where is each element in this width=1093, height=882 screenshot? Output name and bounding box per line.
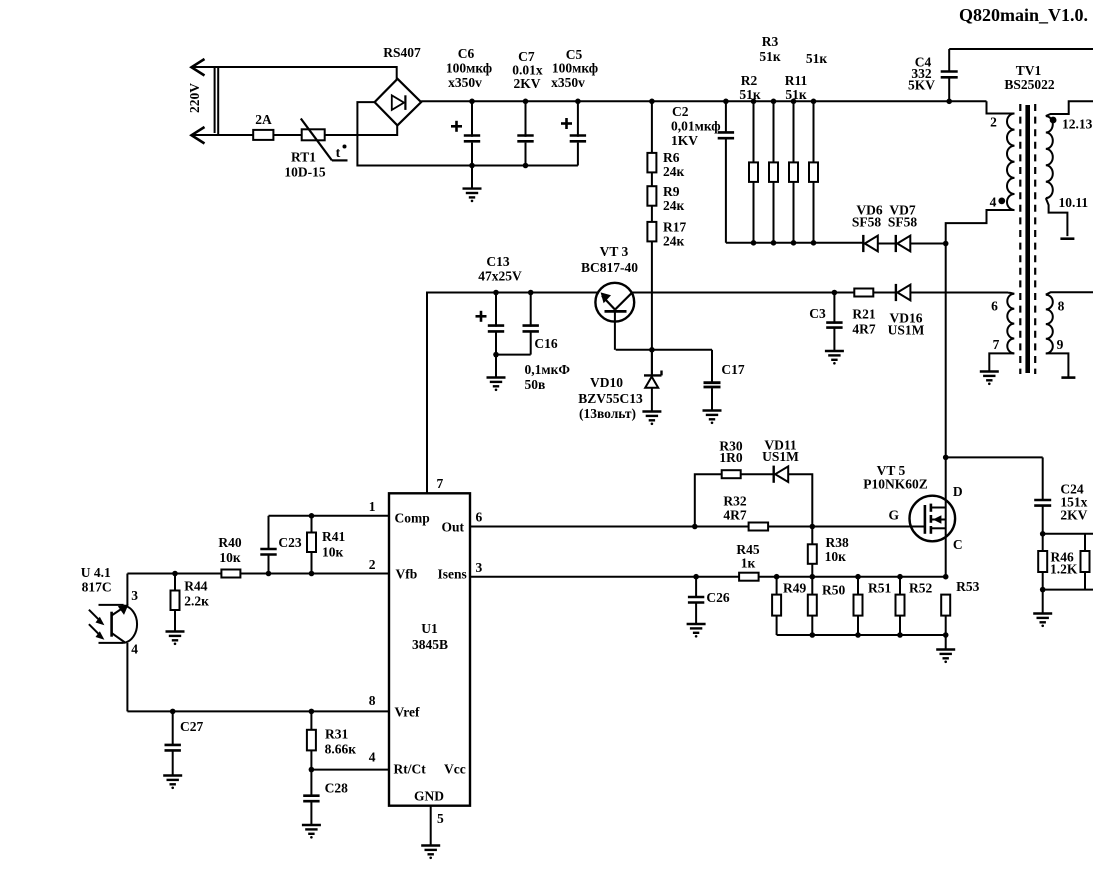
ground below C6 xyxy=(463,166,482,203)
optocoupler U4.1 817C xyxy=(99,574,138,712)
svg-text:SF58: SF58 xyxy=(888,215,918,230)
svg-text:RS407: RS407 xyxy=(383,45,421,60)
svg-text:C13: C13 xyxy=(486,254,509,269)
opto pin 4 label xyxy=(131,642,138,657)
label VT5 P10NK60Z xyxy=(863,463,928,492)
transformer winding pins 8-9 xyxy=(1046,292,1093,377)
ground pin 7 xyxy=(980,372,999,386)
pin 6 wire xyxy=(470,526,925,528)
label VT3 BC817-40 xyxy=(581,244,638,275)
svg-text:Comp: Comp xyxy=(395,511,430,526)
label R32 4R7 xyxy=(723,494,746,523)
svg-text:P10NK60Z: P10NK60Z xyxy=(863,477,928,492)
diode VD6 xyxy=(863,235,878,252)
ground below VD10 xyxy=(642,412,661,426)
svg-text:1.2K: 1.2K xyxy=(1050,562,1078,577)
transformer primary winding pins 2-4 xyxy=(946,101,1015,243)
svg-text:8: 8 xyxy=(369,693,376,708)
svg-text:10.11: 10.11 xyxy=(1059,195,1089,210)
svg-text:6: 6 xyxy=(476,510,483,525)
svg-text:4R7: 4R7 xyxy=(723,508,746,523)
resistor R11 xyxy=(789,99,798,246)
svg-text:R11: R11 xyxy=(785,73,808,88)
svg-text:10к: 10к xyxy=(825,549,847,564)
pin 9 label xyxy=(1057,337,1064,352)
svg-text:1KV: 1KV xyxy=(671,133,698,148)
svg-text:2A: 2A xyxy=(255,112,272,127)
svg-text:C2: C2 xyxy=(672,104,689,119)
transformer secondary winding 12.13 xyxy=(1046,101,1093,236)
svg-text:C23: C23 xyxy=(278,535,301,550)
label R31 8.66k xyxy=(325,727,357,757)
svg-text:51к: 51к xyxy=(785,87,807,102)
ground below C17 xyxy=(703,411,722,425)
pin 7 label xyxy=(437,476,444,491)
svg-text:C17: C17 xyxy=(721,362,744,377)
transistor VT3 xyxy=(595,283,634,350)
title text xyxy=(959,5,1088,25)
svg-text:Isens: Isens xyxy=(438,567,467,582)
pin 3 label xyxy=(476,560,483,575)
svg-text:US1M: US1M xyxy=(762,449,799,464)
pin name Vref xyxy=(395,705,420,720)
label R45 1k xyxy=(736,542,759,571)
resistor R46 xyxy=(1038,534,1047,590)
pin 4 wire xyxy=(309,767,389,773)
label C5 100mkf x350v xyxy=(551,47,598,90)
svg-text:2: 2 xyxy=(369,557,376,572)
ground below source rail xyxy=(936,635,955,663)
pin name Comp xyxy=(395,511,430,526)
capacitor C23 xyxy=(260,516,276,574)
svg-text:7: 7 xyxy=(437,476,444,491)
pin 5 wire xyxy=(430,806,432,846)
svg-text:R38: R38 xyxy=(826,535,849,550)
pin 4 label xyxy=(990,195,997,210)
svg-text:x350v: x350v xyxy=(448,75,482,90)
capacitor C17 xyxy=(704,350,721,411)
pin name GND xyxy=(414,789,444,804)
svg-text:R2: R2 xyxy=(741,73,758,88)
wire R46 bottom rail xyxy=(1040,587,1093,593)
wire AC bottom xyxy=(192,125,398,137)
label U1 3845B xyxy=(412,621,448,652)
wire R46 top rail xyxy=(1043,533,1093,535)
transformer core xyxy=(1020,104,1035,374)
resistor R50 xyxy=(808,577,817,635)
svg-text:0,1мкФ: 0,1мкФ xyxy=(525,362,571,377)
label C27 xyxy=(180,719,203,734)
svg-text:10D-15: 10D-15 xyxy=(284,165,325,180)
label D xyxy=(953,484,963,499)
svg-text:R6: R6 xyxy=(663,150,680,165)
opto pin 3 label xyxy=(131,588,138,603)
svg-text:BC817-40: BC817-40 xyxy=(581,260,638,275)
pin 2 wire xyxy=(127,571,389,577)
capacitor C28 xyxy=(303,770,319,825)
resistor R44 xyxy=(171,574,180,632)
svg-text:C3: C3 xyxy=(809,306,826,321)
wire main HV rail xyxy=(421,100,986,102)
resistor R41 xyxy=(307,516,316,574)
label R6 24k xyxy=(663,150,685,179)
svg-text:TV1: TV1 xyxy=(1016,63,1042,78)
svg-text:R52: R52 xyxy=(909,581,932,596)
label 2A xyxy=(255,112,272,127)
polarity dot 12.13 xyxy=(1050,117,1057,124)
label R21 4R7 xyxy=(852,307,875,337)
svg-text:6: 6 xyxy=(991,299,998,314)
label VD16 US1M xyxy=(888,311,925,338)
wire Vcc to pin 7 xyxy=(426,292,428,494)
svg-text:1к: 1к xyxy=(741,556,756,571)
thermistor RT1 xyxy=(301,119,348,161)
pin 6 label xyxy=(476,510,483,525)
svg-text:50в: 50в xyxy=(525,377,546,392)
pin 2 label xyxy=(369,557,376,572)
resistor R49 xyxy=(772,574,781,635)
wire startup chain vertical xyxy=(649,99,655,376)
svg-text:51к: 51к xyxy=(759,49,781,64)
ground below C27 xyxy=(163,776,182,790)
svg-text:3: 3 xyxy=(131,588,138,603)
resistor R3 xyxy=(769,99,778,246)
pin 8 label xyxy=(369,693,376,708)
ground below C13 xyxy=(487,378,506,392)
svg-text:R32: R32 xyxy=(723,494,746,509)
bridge rectifier RS407 xyxy=(375,79,422,126)
pin 8 wire xyxy=(127,709,389,715)
svg-text:2: 2 xyxy=(990,115,997,130)
pin name Vfb xyxy=(396,567,418,582)
resistor R40 xyxy=(221,570,240,578)
op-amp U1 3845B box xyxy=(389,493,470,805)
svg-text:R50: R50 xyxy=(822,583,845,598)
label R17 24k xyxy=(663,220,686,249)
node AC input top arrow xyxy=(192,59,205,76)
label C6 100mkf x350v xyxy=(446,46,492,90)
wire gate branch up xyxy=(692,474,722,529)
svg-text:VD10: VD10 xyxy=(590,375,623,390)
label t deg xyxy=(336,145,347,162)
svg-text:R49: R49 xyxy=(783,581,806,596)
pin 2 label xyxy=(990,115,997,130)
label C2 0,01mkf 1KV xyxy=(671,104,721,148)
svg-text:Vref: Vref xyxy=(395,705,420,720)
label VD10 BZV55C13 13volt xyxy=(578,375,643,421)
svg-text:24к: 24к xyxy=(663,164,685,179)
svg-text:4: 4 xyxy=(990,195,997,210)
wire bottom rail under capacitors xyxy=(472,165,578,167)
label C3 xyxy=(809,306,826,321)
svg-text:BS25022: BS25022 xyxy=(1004,77,1055,92)
resistor R51 xyxy=(854,574,863,635)
opto light arrows xyxy=(89,610,105,640)
label VD6 SF58 xyxy=(852,203,883,230)
resistor R31 xyxy=(307,711,316,769)
svg-text:3845B: 3845B xyxy=(412,637,448,652)
svg-text:1: 1 xyxy=(369,499,376,514)
svg-text:R41: R41 xyxy=(322,529,345,544)
resistor 51k fourth xyxy=(809,99,818,246)
svg-text:5KV: 5KV xyxy=(908,78,935,93)
pin name Vcc xyxy=(444,762,466,777)
connector double line xyxy=(215,67,219,135)
svg-text:7: 7 xyxy=(993,337,1000,352)
ground below C26 xyxy=(687,624,706,638)
diode VD16 xyxy=(873,284,910,301)
svg-text:U 4.1: U 4.1 xyxy=(81,565,111,580)
label RT1 10D-15 xyxy=(284,150,325,180)
resistor R2 xyxy=(749,99,758,246)
label VD7 SF58 xyxy=(888,203,918,230)
svg-text:C: C xyxy=(953,537,963,552)
ground below C3 xyxy=(825,351,844,365)
svg-text:R51: R51 xyxy=(868,581,891,596)
svg-text:VT 3: VT 3 xyxy=(600,244,629,259)
capacitor C24 xyxy=(1034,457,1051,536)
label C4 332 5KV xyxy=(908,55,935,93)
capacitor C27 xyxy=(165,711,181,775)
wire VD11 to gate node xyxy=(788,474,815,529)
label 10.11 xyxy=(1059,195,1089,210)
pin name Isens xyxy=(438,567,467,582)
svg-text:G: G xyxy=(888,508,899,523)
label U4.1 817C xyxy=(81,565,112,595)
svg-text:51к: 51к xyxy=(806,51,828,66)
svg-text:x350v: x350v xyxy=(551,75,585,90)
label R50 xyxy=(822,583,845,598)
label R38 10k xyxy=(825,535,849,564)
pin 5 label xyxy=(437,811,444,826)
svg-text:BZV55C13: BZV55C13 xyxy=(578,391,643,406)
wire C4 top xyxy=(949,48,1093,50)
svg-text:R9: R9 xyxy=(663,184,680,199)
svg-text:C28: C28 xyxy=(325,781,348,796)
svg-text:2.2к: 2.2к xyxy=(184,594,209,609)
transformer winding pins 6-7 xyxy=(989,293,1014,372)
svg-text:817C: 817C xyxy=(82,580,112,595)
svg-text:12.13: 12.13 xyxy=(1062,117,1093,132)
diode VD11 xyxy=(741,466,789,483)
label 12.13 xyxy=(1062,117,1093,132)
label R46 1.2K xyxy=(1050,550,1078,577)
capacitor C4 xyxy=(941,49,958,104)
svg-text:R40: R40 xyxy=(218,535,241,550)
capacitor C2 xyxy=(718,99,734,243)
svg-text:R44: R44 xyxy=(184,579,207,594)
node AC input bottom arrow xyxy=(192,127,205,144)
capacitor C7 xyxy=(517,99,533,169)
label TV1 BS25022 xyxy=(1004,63,1055,92)
capacitor C26 xyxy=(688,574,704,624)
label R44 2.2k xyxy=(184,579,209,609)
svg-text:R3: R3 xyxy=(762,34,779,49)
label C xyxy=(953,537,963,552)
terminal stub 10.11 xyxy=(1060,237,1074,240)
label C16 0,1mkF 50v xyxy=(525,336,571,377)
pin name Out xyxy=(442,520,465,535)
label C17 xyxy=(721,362,744,377)
wire bridge negative to bottom rail xyxy=(357,102,472,165)
svg-text:4: 4 xyxy=(369,750,376,765)
wire source rail bottom xyxy=(777,632,949,638)
capacitor C6 xyxy=(451,99,480,169)
label R41 10k xyxy=(322,529,345,560)
svg-text:100мкф: 100мкф xyxy=(446,61,492,76)
label C24 151x 2KV xyxy=(1060,482,1087,523)
wire VD16 to winding pin 6 xyxy=(910,292,1008,294)
wire VT3 collector to aux supply xyxy=(631,292,834,294)
ground pin 5 xyxy=(421,846,440,860)
svg-text:Rt/Ct: Rt/Ct xyxy=(394,762,427,777)
zener VD10 xyxy=(644,350,662,412)
pin name Rt/Ct xyxy=(394,762,427,777)
svg-text:8.66к: 8.66к xyxy=(325,742,357,757)
resistor R30 xyxy=(722,470,741,478)
svg-text:4R7: 4R7 xyxy=(852,322,875,337)
svg-text:2KV: 2KV xyxy=(514,76,541,91)
svg-text:R21: R21 xyxy=(852,307,875,322)
wire VT3 base node xyxy=(616,349,712,351)
wire VD6 to VD7 xyxy=(878,243,896,245)
svg-text:R31: R31 xyxy=(325,727,348,742)
resistor R32 xyxy=(749,523,769,531)
label C26 xyxy=(706,590,729,605)
svg-text:R53: R53 xyxy=(956,579,979,594)
svg-text:SF58: SF58 xyxy=(852,215,882,230)
svg-text:10к: 10к xyxy=(219,550,241,565)
transistor VT5 MOSFET xyxy=(910,496,956,542)
diode VD7 xyxy=(896,235,911,252)
svg-text:3: 3 xyxy=(476,560,483,575)
resistor R46 pair right xyxy=(1081,534,1090,590)
svg-text:U1: U1 xyxy=(421,621,438,636)
net label 220V xyxy=(187,83,202,113)
wire VD7 to drain node xyxy=(910,241,948,247)
svg-text:Vcc: Vcc xyxy=(444,762,466,777)
svg-text:C6: C6 xyxy=(458,46,475,61)
label R49 xyxy=(783,581,806,596)
wire snubber bottom xyxy=(726,242,863,244)
label C23 xyxy=(278,535,301,550)
resistor R17 xyxy=(647,222,656,242)
wire drain to C24 xyxy=(946,456,1043,458)
svg-text:5: 5 xyxy=(437,811,444,826)
label VD11 US1M xyxy=(762,438,799,465)
pin 6 label xyxy=(991,299,998,314)
svg-text:10к: 10к xyxy=(322,545,344,560)
fuse FU1 2A xyxy=(253,130,273,140)
label R53 xyxy=(956,579,979,594)
svg-text:24к: 24к xyxy=(663,234,685,249)
terminal stub pin 9 xyxy=(1061,376,1075,379)
resistor R45 xyxy=(739,573,759,581)
label C7 0.01x 2KV xyxy=(512,49,543,91)
svg-text:Out: Out xyxy=(442,520,465,535)
svg-text:R17: R17 xyxy=(663,220,686,235)
svg-text:D: D xyxy=(953,484,963,499)
wire drain vertical xyxy=(943,244,949,580)
label R30 1R0 xyxy=(719,439,742,466)
pin 4 label xyxy=(369,750,376,765)
svg-text:9: 9 xyxy=(1057,337,1064,352)
capacitor C5 xyxy=(561,99,586,166)
capacitor C13 xyxy=(476,290,505,378)
wire Vcc horizontal xyxy=(427,292,599,294)
label R9 24k xyxy=(663,184,685,213)
svg-text:100мкф: 100мкф xyxy=(552,61,598,76)
pin 7 label xyxy=(993,337,1000,352)
ground below C28 xyxy=(302,825,321,839)
svg-text:C26: C26 xyxy=(706,590,729,605)
svg-text:24к: 24к xyxy=(663,198,685,213)
polarity dot pin 4 xyxy=(998,198,1005,205)
resistor R9 xyxy=(647,186,656,206)
label R11 51k xyxy=(785,73,808,102)
label R51 xyxy=(868,581,891,596)
resistor R53 xyxy=(941,595,950,635)
svg-text:1R0: 1R0 xyxy=(719,450,742,465)
ground below R44 xyxy=(166,632,185,646)
svg-text:47х25V: 47х25V xyxy=(478,269,522,284)
label 51k xyxy=(806,51,828,66)
resistor R21 xyxy=(834,289,873,297)
capacitor C16 xyxy=(496,290,539,355)
svg-text:C16: C16 xyxy=(534,336,557,351)
label C13 47x25V xyxy=(478,254,522,284)
resistor R38 xyxy=(808,527,817,580)
pin 1 wire xyxy=(269,513,390,519)
svg-text:4: 4 xyxy=(131,642,138,657)
svg-text:US1M: US1M xyxy=(888,323,925,338)
svg-text:GND: GND xyxy=(414,789,444,804)
label R2 51k xyxy=(739,73,761,102)
pin 3 wire xyxy=(470,576,946,578)
svg-text:Vfb: Vfb xyxy=(396,567,418,582)
resistor R6 xyxy=(647,153,656,173)
svg-text:Q820main_V1.0.: Q820main_V1.0. xyxy=(959,5,1088,25)
label R3 51k xyxy=(759,34,781,64)
svg-text:220V: 220V xyxy=(187,83,202,113)
capacitor C3 xyxy=(826,290,842,351)
label R40 10k xyxy=(218,535,241,565)
label R52 xyxy=(909,581,932,596)
svg-text:8: 8 xyxy=(1058,299,1065,314)
svg-text:51к: 51к xyxy=(739,87,761,102)
svg-text:0,01мкф: 0,01мкф xyxy=(671,119,721,134)
label C28 xyxy=(325,781,348,796)
svg-text:t: t xyxy=(336,146,341,161)
pin 1 label xyxy=(369,499,376,514)
ground below R46 xyxy=(1033,590,1052,628)
svg-text:C27: C27 xyxy=(180,719,203,734)
svg-text:(13вольт): (13вольт) xyxy=(579,406,636,421)
label G xyxy=(888,508,899,523)
resistor R52 xyxy=(896,574,905,635)
wire AC top xyxy=(192,66,397,80)
svg-text:2KV: 2KV xyxy=(1060,508,1087,523)
pin 8 label xyxy=(1058,299,1065,314)
label RS407 xyxy=(383,45,421,60)
svg-text:RT1: RT1 xyxy=(291,150,316,165)
